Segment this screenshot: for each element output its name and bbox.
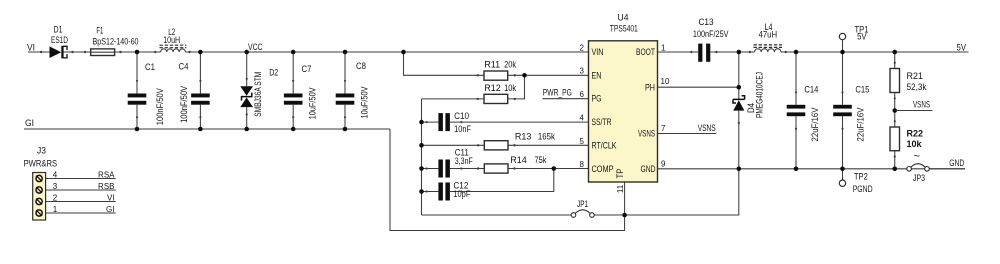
svg-text:PH: PH — [645, 82, 655, 92]
wire J3 pin 2 — [46, 201, 116, 203]
junction VCC — [244, 50, 249, 55]
svg-text:165k: 165k — [538, 131, 555, 141]
wire JP1 row — [422, 169, 739, 215]
wire GND rail from pin 9 — [658, 168, 966, 170]
junction BOOT L4 node — [737, 50, 742, 55]
svg-text:52,3k: 52,3k — [907, 82, 927, 92]
svg-text:JP3: JP3 — [913, 173, 925, 183]
svg-text:TPS5401: TPS5401 — [610, 24, 638, 34]
svg-text:GI: GI — [106, 205, 114, 214]
wire C15 vertical — [842, 52, 844, 169]
diode D4 PMEG4010CEJ — [733, 72, 764, 118]
junction JP1 TP — [622, 213, 627, 218]
svg-text:2: 2 — [53, 194, 58, 203]
svg-text:RT/CLK: RT/CLK — [592, 141, 617, 151]
junction column C10 — [419, 120, 424, 125]
wire J3 pin 1 — [46, 212, 116, 214]
capacitor C14 22uF/16V — [787, 84, 820, 141]
svg-text:EN: EN — [592, 70, 602, 80]
svg-text:C8: C8 — [356, 61, 366, 71]
fuse F1 BpS12-140-60 — [91, 25, 139, 55]
svg-text:TP2: TP2 — [854, 172, 868, 182]
wire C12 line — [422, 169, 554, 192]
junction C14 top — [794, 50, 799, 55]
junction D4 GND — [737, 167, 742, 172]
connector J3 PWR&RS — [24, 146, 58, 221]
wire F1 to L2 — [115, 51, 161, 53]
svg-text:1: 1 — [53, 205, 58, 214]
junction C7 bottom — [291, 127, 296, 132]
svg-text:3,3nF: 3,3nF — [455, 156, 473, 166]
junction C8 bottom — [343, 127, 348, 132]
svg-text:47uH: 47uH — [759, 30, 778, 40]
junction R22 bottom — [892, 167, 897, 172]
junction EN node — [522, 73, 527, 78]
svg-text:5V: 5V — [957, 42, 967, 52]
svg-text:RSA: RSA — [98, 171, 115, 180]
junction C14 bottom — [794, 167, 799, 172]
node PWR_PG — [543, 87, 589, 98]
junction R21 top — [892, 50, 897, 55]
svg-text:20k: 20k — [504, 60, 516, 70]
wire C10 line to SS/TR pin 4 — [422, 121, 589, 123]
svg-text:100nF/50V: 100nF/50V — [155, 88, 165, 125]
svg-text:PWR_PG: PWR_PG — [543, 87, 572, 97]
wire C11 R14 line to COMP pin 8 — [422, 168, 589, 170]
svg-text:100nF/25V: 100nF/25V — [693, 29, 729, 39]
svg-text:C7: C7 — [302, 64, 312, 74]
svg-text:PG: PG — [592, 94, 602, 104]
junction column R13 — [419, 143, 424, 148]
wire R21 top and bottom — [894, 52, 896, 111]
wire VSNS pin 7 stub — [658, 133, 717, 135]
svg-text:C1: C1 — [145, 62, 155, 72]
capacitor C1 100nF/50V — [128, 62, 166, 125]
junction C4 top — [198, 50, 203, 55]
svg-text:9: 9 — [661, 160, 666, 169]
svg-text:PGND: PGND — [853, 184, 873, 194]
wire VSNS stub right — [895, 110, 933, 112]
svg-text:F1: F1 — [96, 25, 103, 35]
capacitor C7 10uF/50V — [284, 64, 318, 120]
svg-text:3: 3 — [580, 67, 585, 76]
junction C1 bottom — [135, 127, 140, 132]
TVS diode D2 SMBJ36A STM — [240, 67, 278, 116]
wire GI drop to bottom run — [390, 129, 625, 231]
junction C4 bottom — [198, 127, 203, 132]
wire TP1 stub — [842, 40, 844, 52]
svg-text:10k: 10k — [504, 83, 516, 93]
svg-text:R21: R21 — [907, 71, 924, 81]
svg-text:10: 10 — [661, 77, 670, 86]
wire C13 to PH node — [710, 51, 739, 53]
svg-text:D2: D2 — [269, 67, 278, 77]
svg-text:10pF: 10pF — [453, 189, 470, 199]
wire TP2 stub — [842, 169, 844, 180]
resistor R11 20k — [484, 60, 517, 81]
svg-text:C10: C10 — [454, 111, 469, 121]
svg-text:C13: C13 — [699, 17, 714, 27]
jumper JP1 — [571, 199, 594, 217]
wire C1 vertical — [136, 52, 138, 129]
wire TP pin 11 stub — [624, 182, 626, 215]
wire GI rail — [24, 128, 390, 130]
svg-text:R22: R22 — [907, 129, 924, 139]
svg-text:VIN: VIN — [592, 47, 604, 57]
resistor R14 75k — [484, 155, 547, 173]
svg-text:ES1D: ES1D — [51, 35, 68, 45]
svg-text:GI: GI — [25, 118, 34, 128]
svg-text:VSNS: VSNS — [698, 123, 716, 133]
resistor R12 10k — [484, 83, 517, 104]
capacitor C8 10uF/50V — [336, 61, 370, 119]
svg-text:4: 4 — [580, 113, 585, 122]
wire C8 vertical — [344, 52, 346, 129]
inductor L2 10uH — [160, 27, 187, 52]
svg-text:VI: VI — [27, 42, 35, 52]
svg-text:C14: C14 — [804, 84, 818, 94]
test point TP1 5V — [839, 25, 868, 42]
svg-text:8: 8 — [580, 160, 585, 169]
capacitor C4 100nF/50V — [179, 62, 210, 123]
svg-text:C4: C4 — [179, 62, 189, 72]
svg-text:SMBJ36A STM: SMBJ36A STM — [253, 72, 263, 117]
svg-text:R12: R12 — [484, 83, 501, 93]
svg-text:22uF/16V: 22uF/16V — [810, 108, 820, 142]
svg-text:BOOT: BOOT — [636, 47, 655, 57]
junction column C11 — [419, 166, 424, 171]
svg-text:COMP: COMP — [592, 164, 614, 174]
svg-text:10k: 10k — [907, 139, 923, 149]
svg-text:10uF/50V: 10uF/50V — [360, 87, 370, 119]
wire R12 right up to EN junction — [508, 75, 525, 99]
wire J3 pin 3 — [46, 189, 116, 191]
svg-text:4: 4 — [53, 171, 58, 180]
resistor R21 52,3k — [890, 69, 927, 93]
resistor R22 10k — [890, 127, 923, 151]
svg-text:5: 5 — [580, 137, 585, 146]
svg-text:10nF: 10nF — [454, 124, 471, 134]
junction C1 top — [135, 50, 140, 55]
inductor L4 47uH — [754, 22, 783, 52]
svg-text:11: 11 — [616, 184, 625, 193]
junction PH node — [737, 85, 742, 90]
wire D2 vertical — [246, 52, 248, 129]
wire PH node vertical to D4 — [738, 52, 740, 99]
wire C4 vertical — [199, 52, 201, 129]
svg-text:~: ~ — [914, 151, 920, 163]
wire J3 pin 4 — [46, 178, 116, 180]
wire VI rail input segment — [28, 51, 50, 53]
svg-text:GND: GND — [949, 158, 964, 168]
svg-text:10uF/50V: 10uF/50V — [308, 87, 318, 119]
resistor R13 165k — [484, 131, 555, 150]
capacitor C15 22uF/16V — [833, 84, 869, 141]
diode D1 ES1D — [50, 25, 69, 59]
junction EN feed — [401, 50, 406, 55]
svg-text:PWR&RS: PWR&RS — [24, 158, 58, 168]
capacitor C11 3,3nF — [438, 148, 473, 178]
wire EN feed drop from VIN rail — [404, 52, 485, 75]
svg-text:GND: GND — [641, 164, 656, 174]
svg-text:SS/TR: SS/TR — [592, 117, 612, 127]
svg-text:U4: U4 — [618, 12, 629, 22]
op-amp U1 ... actually IC U4 TPS5401 — [589, 12, 658, 182]
wire R12 left from column — [422, 98, 485, 100]
junction C8 top — [343, 50, 348, 55]
wire R13 line to RT/CLK pin 5 — [422, 144, 589, 146]
svg-text:VI: VI — [107, 194, 115, 203]
svg-text:J3: J3 — [37, 146, 46, 156]
junction column C12 — [419, 189, 424, 194]
wire BOOT to C13 — [658, 51, 699, 53]
svg-text:22uF/16V: 22uF/16V — [856, 108, 866, 142]
svg-text:6: 6 — [580, 90, 585, 99]
svg-text:C15: C15 — [855, 84, 869, 94]
junction VSNS divider — [892, 108, 897, 113]
svg-text:PMEG4010CEJ: PMEG4010CEJ — [754, 72, 764, 118]
junction COMP node — [552, 166, 557, 171]
junction C15 TP1 — [840, 50, 845, 55]
wire PH pin 10 — [658, 86, 739, 88]
svg-text:3: 3 — [53, 182, 58, 191]
wire C7 vertical — [292, 52, 294, 129]
svg-text:5V: 5V — [857, 32, 867, 42]
svg-text:R11: R11 — [484, 60, 500, 70]
svg-text:D1: D1 — [54, 25, 63, 35]
junction D2 bottom — [244, 127, 249, 132]
capacitor C10 10nF — [438, 111, 471, 134]
svg-text:JP1: JP1 — [577, 199, 588, 209]
pin end ticks of series components — [40, 51, 896, 193]
svg-text:7: 7 — [661, 124, 666, 133]
svg-text:100nF/50V: 100nF/50V — [179, 86, 189, 123]
svg-text:VSNS: VSNS — [638, 129, 655, 139]
junction C15 bottom TP2 — [840, 167, 845, 172]
svg-text:75k: 75k — [535, 155, 547, 165]
wire left column x421 — [421, 99, 423, 215]
svg-text:VCC: VCC — [248, 42, 263, 52]
svg-text:R14: R14 — [510, 155, 527, 165]
svg-text:TP: TP — [615, 169, 625, 179]
svg-text:10uH: 10uH — [163, 35, 180, 45]
wire D4 to GND rail — [738, 111, 740, 169]
jumper JP3 — [907, 151, 930, 183]
wire C14 vertical — [795, 52, 797, 169]
svg-text:R13: R13 — [515, 131, 532, 141]
wire R22 top and bottom — [894, 111, 896, 169]
wire 5V rail — [781, 51, 969, 53]
svg-text:RSB: RSB — [98, 182, 114, 191]
junction C7 top — [291, 50, 296, 55]
test point TP2 PGND — [839, 172, 873, 195]
capacitor C13 100nF/25V — [693, 17, 729, 62]
svg-text:BpS12-140-60: BpS12-140-60 — [93, 37, 139, 47]
wire D1 to F1 — [64, 51, 91, 53]
svg-text:VSNS: VSNS — [913, 99, 930, 109]
wire JP3 right to GND label — [929, 168, 965, 170]
wire PH node to L4 — [739, 51, 755, 53]
wire R11 to EN pin 3 — [508, 74, 589, 76]
capacitor C12 10pF — [438, 180, 470, 200]
svg-text:2: 2 — [580, 43, 585, 52]
svg-text:1: 1 — [661, 43, 666, 52]
wire L2 to VIN pin 2 — [185, 51, 588, 53]
